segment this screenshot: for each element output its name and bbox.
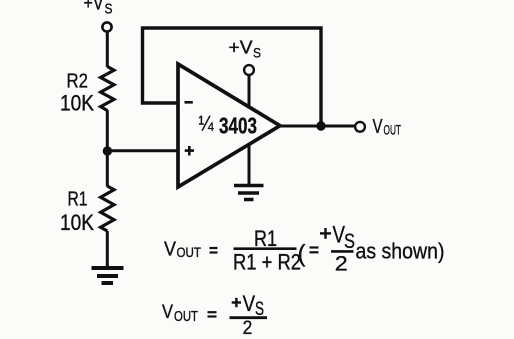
wire feedback output to inverting input [143, 28, 322, 126]
svg-text:S: S [253, 45, 261, 61]
svg-text:2: 2 [335, 252, 348, 276]
resistor R1 [101, 186, 114, 231]
svg-text:S: S [105, 2, 113, 18]
svg-text:R2: R2 [67, 71, 89, 93]
svg-text:10K: 10K [60, 90, 94, 115]
resistor R2 [101, 67, 114, 111]
svg-text:10K: 10K [60, 210, 94, 235]
wire op-amp to ground [248, 144, 251, 186]
net +VS label (op-amp supply) [229, 37, 262, 61]
wire node A to op-amp non-inverting input [107, 149, 178, 152]
svg-text:V: V [162, 302, 173, 323]
terminal +VS (op-amp supply) [244, 65, 254, 75]
svg-text:V: V [243, 291, 256, 316]
terminal VOUT [355, 122, 365, 132]
wire R2 bottom to node A [106, 110, 109, 151]
wire +VS supply to op-amp top edge [248, 75, 251, 108]
svg-text:+V: +V [229, 37, 254, 58]
svg-text:V: V [373, 115, 383, 138]
svg-text:+V: +V [84, 0, 105, 15]
svg-text:OUT: OUT [177, 245, 202, 260]
junction output node [316, 121, 325, 130]
wire node A to R1 top [106, 151, 109, 187]
wire op-amp output [280, 125, 356, 128]
terminal +VS top-left [102, 22, 111, 31]
svg-text:2: 2 [243, 318, 253, 339]
label non-inverting input + [185, 146, 194, 156]
equation 1: VOUT = R1/(R1+R2) ( = +VS/2 as shown) [164, 239, 201, 261]
svg-text:R1: R1 [68, 189, 88, 211]
ground (op-amp) [234, 186, 264, 200]
wire R1 bottom to ground [106, 231, 109, 268]
wire +VS terminal to R2 top [106, 32, 109, 67]
svg-text:OUT: OUT [174, 308, 198, 325]
label 1/4 3403 [199, 112, 258, 138]
svg-text:V: V [164, 239, 177, 261]
equation 2: VOUT = +VS/2 [162, 302, 198, 325]
svg-text:OUT: OUT [384, 122, 402, 138]
ground (bottom-left) [92, 268, 124, 283]
op-amp U1 (1/4 3403) [178, 64, 280, 187]
svg-text:(: ( [298, 241, 306, 268]
svg-text:R1 + R2: R1 + R2 [233, 249, 301, 274]
net +VS label (top-left supply) [84, 0, 113, 18]
svg-text:R1: R1 [254, 226, 277, 251]
svg-text:3403: 3403 [219, 112, 257, 138]
svg-text:S: S [344, 230, 355, 253]
label inverting input - [185, 101, 193, 104]
svg-text:¼: ¼ [199, 113, 214, 136]
label VOUT [373, 115, 402, 138]
svg-text:as shown): as shown) [356, 239, 445, 264]
junction node A [103, 146, 112, 155]
